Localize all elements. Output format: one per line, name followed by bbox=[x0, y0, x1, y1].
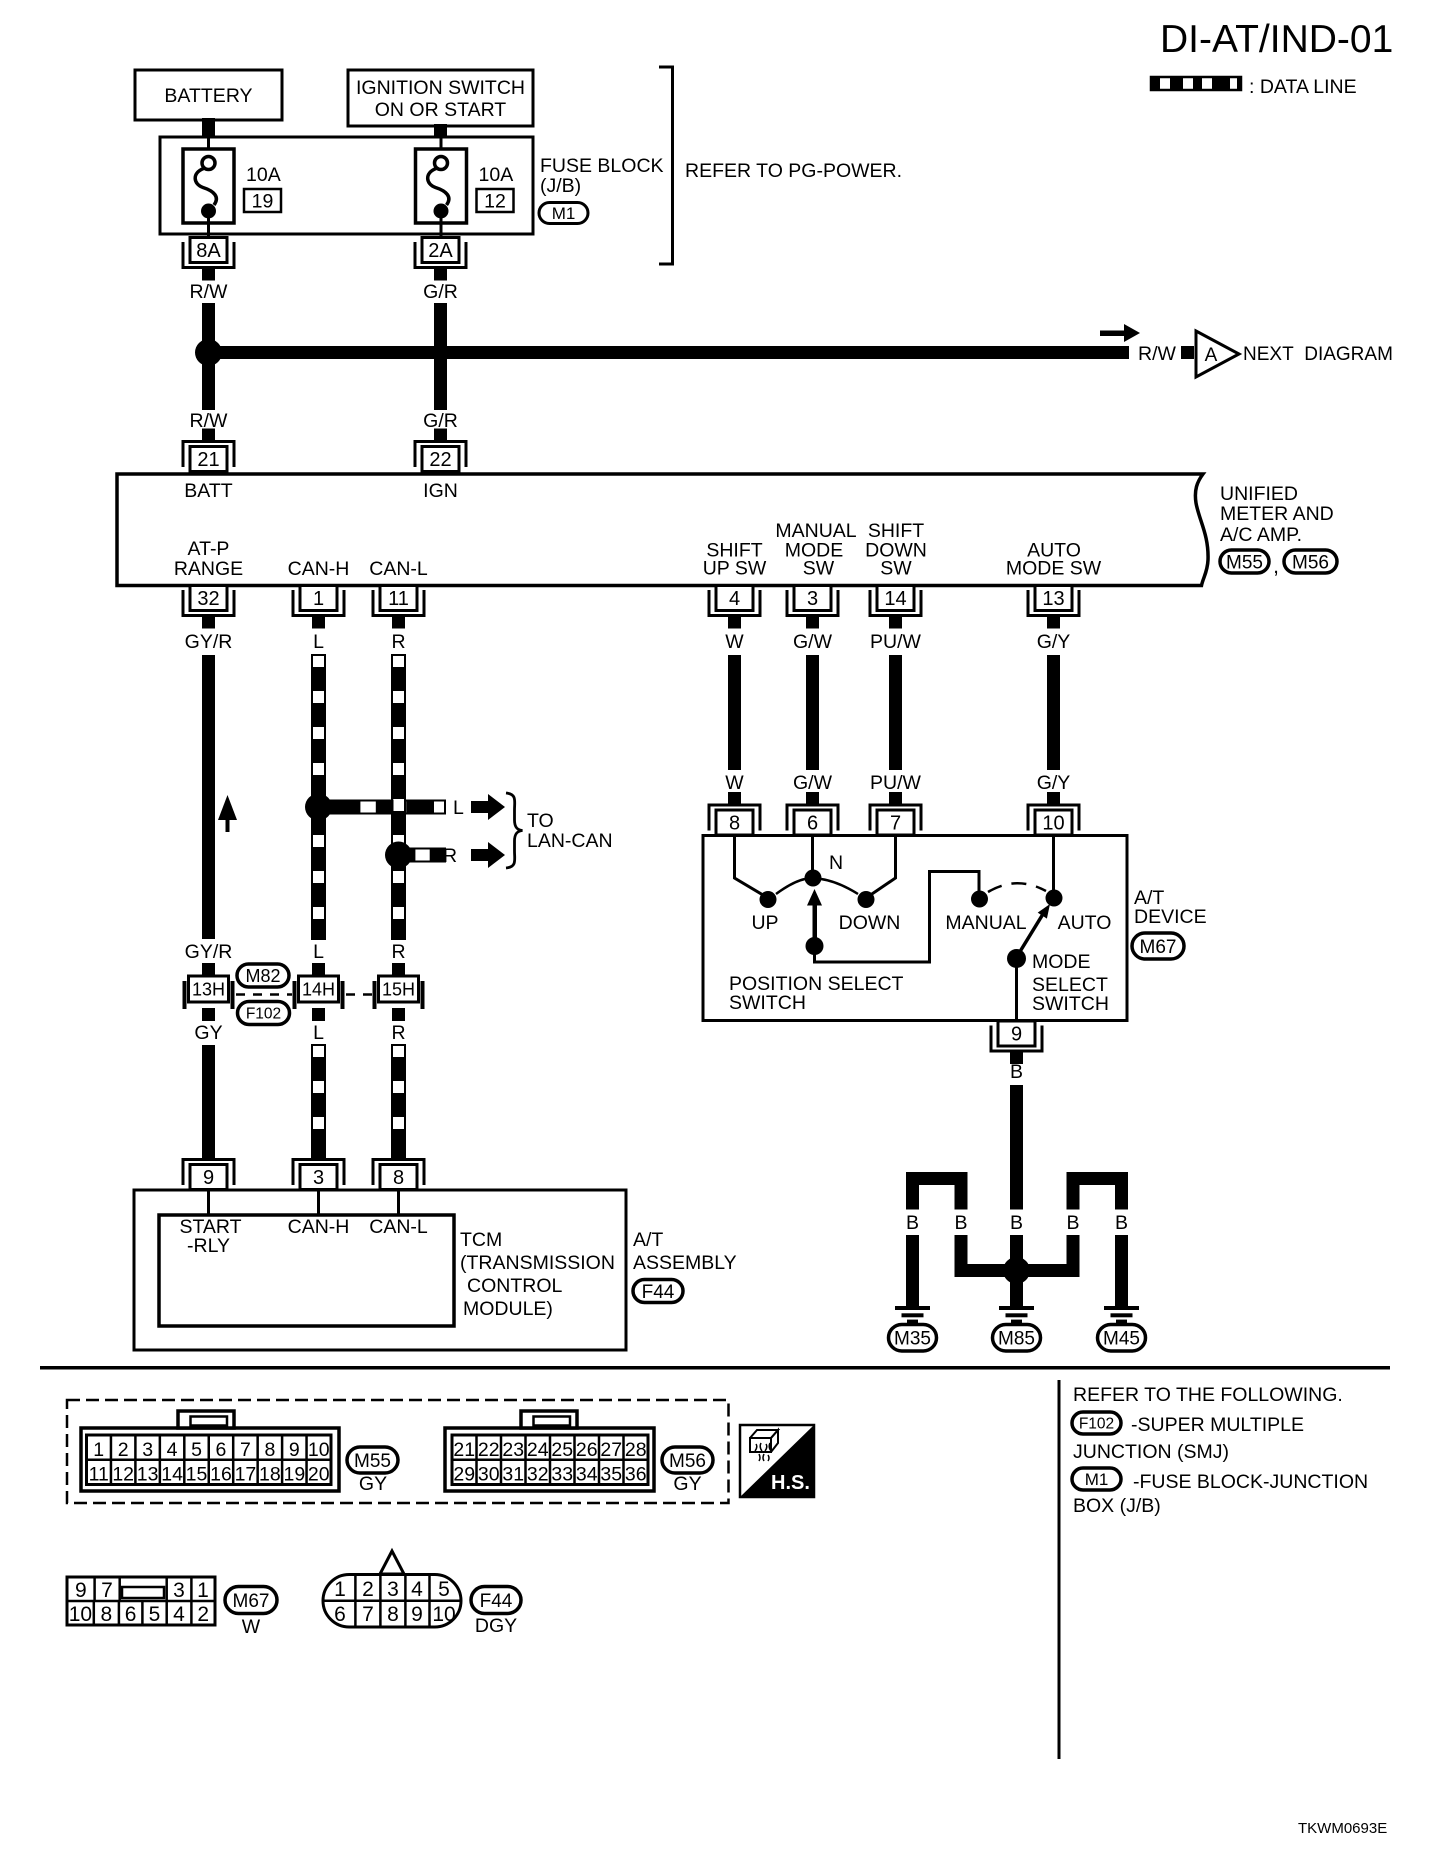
label R/W upper bbox=[190, 281, 229, 303]
svg-text:19: 19 bbox=[283, 1464, 305, 1486]
label R row1 bbox=[391, 631, 405, 653]
svg-text:7: 7 bbox=[362, 1603, 374, 1626]
label PU/W row2 bbox=[870, 772, 922, 794]
wire ignition to fuse block bbox=[434, 124, 447, 138]
svg-text:7: 7 bbox=[240, 1439, 251, 1461]
svg-text:14: 14 bbox=[161, 1464, 183, 1486]
svg-text:DOWN: DOWN bbox=[839, 912, 901, 934]
svg-text:CAN-L: CAN-L bbox=[369, 1216, 428, 1238]
connector 13H bbox=[183, 976, 235, 1009]
svg-text:CAN-H: CAN-H bbox=[288, 1216, 350, 1238]
wire B g4 lower bbox=[1067, 1235, 1080, 1277]
svg-text:R/W: R/W bbox=[1138, 343, 1177, 365]
title DI-AT/IND-01 bbox=[1160, 18, 1393, 61]
svg-text:AT-P: AT-P bbox=[188, 538, 230, 560]
svg-text:31: 31 bbox=[502, 1464, 524, 1486]
svg-text:-FUSE BLOCK-JUNCTION: -FUSE BLOCK-JUNCTION bbox=[1133, 1471, 1368, 1493]
svg-text:TO: TO bbox=[527, 810, 554, 832]
left ground loop top bbox=[906, 1172, 968, 1210]
svg-text:G/Y: G/Y bbox=[1037, 772, 1071, 794]
svg-text:(J/B): (J/B) bbox=[540, 175, 581, 197]
svg-text:2: 2 bbox=[362, 1578, 374, 1601]
svg-text:14H: 14H bbox=[302, 980, 335, 1000]
svg-text:NEXT DIAGRAM: NEXT DIAGRAM bbox=[1243, 344, 1393, 365]
label MODE SELECT SWITCH bbox=[1032, 951, 1109, 1015]
stub GY below 13H bbox=[202, 1008, 215, 1021]
svg-text:6: 6 bbox=[125, 1603, 137, 1626]
connector 2A bbox=[415, 238, 466, 281]
svg-text:M67: M67 bbox=[233, 1591, 270, 1612]
svg-text:SWITCH: SWITCH bbox=[1032, 993, 1109, 1015]
svg-text:19: 19 bbox=[252, 191, 274, 213]
label PU/W row1 bbox=[870, 631, 922, 653]
connector 8A bbox=[183, 238, 234, 281]
svg-text:MANUAL: MANUAL bbox=[945, 912, 1026, 934]
position common dot bbox=[806, 937, 824, 955]
contact UP dot bbox=[760, 891, 777, 908]
svg-text:8: 8 bbox=[729, 813, 740, 835]
label B g3 bbox=[1010, 1212, 1023, 1234]
svg-text:4: 4 bbox=[167, 1439, 178, 1461]
label A/T DEVICE bbox=[1134, 887, 1207, 928]
label SHIFT DOWN SW bbox=[865, 520, 927, 580]
svg-text:M1: M1 bbox=[1085, 1470, 1109, 1489]
svg-text:8A: 8A bbox=[196, 240, 221, 262]
svg-text:5: 5 bbox=[191, 1439, 202, 1461]
svg-text:A/T: A/T bbox=[633, 1229, 663, 1251]
svg-text:B: B bbox=[906, 1212, 919, 1234]
svg-text:5: 5 bbox=[438, 1578, 450, 1601]
label G/Y row1 bbox=[1037, 631, 1071, 653]
svg-text:PU/W: PU/W bbox=[870, 772, 922, 794]
lead 8 into TCM bbox=[397, 1190, 400, 1216]
wire B g5 lower bbox=[1115, 1235, 1128, 1306]
fuse 12 10A bbox=[416, 138, 514, 237]
svg-text:23: 23 bbox=[502, 1439, 524, 1461]
svg-text:6: 6 bbox=[807, 813, 818, 835]
contact MANUAL dot bbox=[971, 891, 988, 908]
ground ref M35 oval bbox=[889, 1324, 937, 1351]
label TO LAN-CAN bbox=[527, 810, 613, 852]
svg-text:G/W: G/W bbox=[793, 631, 833, 653]
svg-text:F44: F44 bbox=[642, 1282, 675, 1303]
label CAN-H TCM bbox=[288, 1216, 350, 1238]
label B g5 bbox=[1115, 1212, 1128, 1234]
svg-text:20: 20 bbox=[308, 1464, 330, 1486]
wire G/R crossing bus bbox=[434, 303, 447, 410]
stub R above 15H bbox=[392, 963, 405, 976]
connector face M56 bbox=[445, 1411, 654, 1491]
label B g4 bbox=[1066, 1212, 1079, 1234]
svg-text:M55: M55 bbox=[1226, 552, 1263, 573]
svg-text:CAN-H: CAN-H bbox=[288, 558, 350, 580]
svg-text:10A: 10A bbox=[479, 164, 514, 186]
dashed link 14H-15H bbox=[346, 993, 372, 996]
svg-text:SW: SW bbox=[880, 558, 912, 580]
svg-text:21: 21 bbox=[453, 1439, 475, 1461]
contact DOWN dot bbox=[858, 891, 875, 908]
wire mode dot to pin9 bbox=[1015, 963, 1018, 1020]
svg-text:21: 21 bbox=[197, 449, 219, 471]
label B g1 bbox=[906, 1212, 919, 1234]
svg-text:3: 3 bbox=[387, 1578, 399, 1601]
svg-text:13: 13 bbox=[1042, 588, 1064, 610]
svg-text:9: 9 bbox=[289, 1439, 300, 1461]
svg-text:GY: GY bbox=[194, 1022, 222, 1044]
svg-text:7: 7 bbox=[890, 813, 901, 835]
junction dot CAN-H bbox=[305, 794, 332, 821]
svg-text:M85: M85 bbox=[998, 1329, 1035, 1350]
label L branch bbox=[453, 797, 464, 819]
connector 11 bbox=[373, 586, 424, 629]
branch CAN-H data horizontal bbox=[319, 801, 446, 814]
connector 1 bbox=[293, 586, 344, 629]
label W row1 bbox=[725, 631, 744, 653]
connector ref M82 oval bbox=[237, 964, 289, 987]
data line legend bbox=[1151, 76, 1357, 98]
connector ref M55 oval bbox=[1220, 550, 1269, 573]
fuse 19 10A bbox=[183, 138, 281, 237]
svg-text:29: 29 bbox=[453, 1464, 475, 1486]
svg-text:TCM: TCM bbox=[460, 1229, 502, 1251]
connector 4 bbox=[709, 586, 760, 629]
label R row3 bbox=[391, 1022, 405, 1044]
svg-text:M56: M56 bbox=[669, 1451, 706, 1472]
svg-text:36: 36 bbox=[625, 1464, 647, 1486]
notes divider line bbox=[1058, 1380, 1061, 1759]
ref M1 oval note bbox=[1072, 1468, 1121, 1490]
wiper arm arrow bbox=[807, 889, 822, 946]
svg-text:L: L bbox=[313, 941, 324, 963]
svg-text:13: 13 bbox=[137, 1464, 159, 1486]
svg-text:R: R bbox=[443, 845, 457, 867]
svg-text:34: 34 bbox=[576, 1464, 598, 1486]
connector 10 device bbox=[1028, 792, 1079, 835]
ground bottom left link bbox=[955, 1264, 1017, 1277]
svg-text:1: 1 bbox=[313, 588, 324, 610]
svg-text:,: , bbox=[1273, 555, 1279, 578]
label DGY F44 bbox=[475, 1615, 517, 1637]
arrow to LAN-CAN upper bbox=[471, 794, 505, 820]
connector 13 bbox=[1028, 586, 1079, 629]
label DOWN bbox=[839, 912, 901, 934]
svg-text:MODULE): MODULE) bbox=[463, 1298, 553, 1320]
svg-text:N: N bbox=[829, 852, 843, 874]
label AUTO MODE SW bbox=[1006, 540, 1102, 580]
svg-text:8: 8 bbox=[264, 1439, 275, 1461]
svg-text:BATTERY: BATTERY bbox=[164, 85, 252, 107]
label N bbox=[829, 852, 843, 874]
mode select dot bbox=[1007, 949, 1026, 968]
label SHIFT UP SW bbox=[703, 540, 767, 580]
connector 32 bbox=[183, 586, 234, 629]
ref M56 oval bottom bbox=[662, 1447, 713, 1473]
svg-text:1: 1 bbox=[93, 1439, 104, 1461]
svg-text:30: 30 bbox=[478, 1464, 500, 1486]
svg-text:MODE SW: MODE SW bbox=[1006, 558, 1102, 580]
label B g2 bbox=[954, 1212, 967, 1234]
svg-text:W: W bbox=[242, 1616, 261, 1638]
label IGN bbox=[423, 480, 458, 502]
svg-text:12: 12 bbox=[484, 191, 506, 213]
label NEXT DIAGRAM bbox=[1243, 344, 1393, 365]
connector 14 bbox=[870, 586, 921, 629]
dashed harness box bbox=[67, 1400, 729, 1503]
svg-text:G/W: G/W bbox=[793, 772, 833, 794]
svg-text:IGN: IGN bbox=[423, 480, 458, 502]
direction arrow on GY/R bbox=[218, 795, 237, 832]
ground ref M85 oval bbox=[993, 1324, 1041, 1351]
svg-text:32: 32 bbox=[197, 588, 219, 610]
dashed link 13H-14H bbox=[236, 993, 292, 996]
svg-text:M1: M1 bbox=[552, 204, 576, 223]
svg-text:PU/W: PU/W bbox=[870, 631, 922, 653]
A/T assembly outer box bbox=[134, 1190, 626, 1350]
svg-text:5: 5 bbox=[149, 1603, 161, 1626]
connector 3 meter bbox=[787, 586, 838, 629]
label G/R upper bbox=[423, 281, 458, 303]
connector 22 bbox=[415, 429, 466, 472]
wire G/Y upper bbox=[1047, 655, 1060, 770]
svg-text:F102: F102 bbox=[1079, 1416, 1114, 1433]
svg-text:4: 4 bbox=[411, 1578, 423, 1601]
svg-text:10: 10 bbox=[69, 1603, 92, 1626]
svg-text:BOX (J/B): BOX (J/B) bbox=[1073, 1495, 1161, 1517]
svg-text:REFER TO PG-POWER.: REFER TO PG-POWER. bbox=[685, 160, 902, 182]
svg-text:14: 14 bbox=[884, 588, 906, 610]
svg-text:35: 35 bbox=[600, 1464, 622, 1486]
label A/T ASSEMBLY bbox=[633, 1229, 737, 1274]
connector 9 device bbox=[991, 1021, 1042, 1064]
label AT-P RANGE bbox=[174, 538, 243, 580]
mode select lever bbox=[1019, 904, 1051, 954]
wire CAN-H data upper bbox=[312, 655, 325, 939]
svg-text:13H: 13H bbox=[192, 980, 225, 1000]
label TCM bbox=[460, 1229, 615, 1320]
svg-text:27: 27 bbox=[600, 1439, 622, 1461]
svg-text:AUTO: AUTO bbox=[1058, 912, 1112, 934]
svg-text:M67: M67 bbox=[1140, 937, 1177, 958]
wire R/W to bus bbox=[202, 303, 215, 352]
svg-text:GY: GY bbox=[673, 1473, 701, 1495]
connector 14H bbox=[293, 976, 345, 1009]
label B below device bbox=[1010, 1061, 1023, 1083]
A/T device box bbox=[703, 836, 1127, 1021]
svg-text:SWITCH: SWITCH bbox=[729, 992, 806, 1014]
label GY/R row2 bbox=[185, 941, 233, 963]
wire CAN-H data lower bbox=[312, 1045, 325, 1160]
svg-text:8: 8 bbox=[387, 1603, 399, 1626]
svg-text:18: 18 bbox=[259, 1464, 281, 1486]
wire B center upper bbox=[1010, 1085, 1023, 1210]
wire B center lower bbox=[1010, 1235, 1023, 1271]
unified meter and A/C amp box bbox=[117, 474, 1208, 586]
label R row2 bbox=[391, 941, 405, 963]
svg-text:GY/R: GY/R bbox=[185, 941, 233, 963]
ref M67 oval bottom bbox=[225, 1587, 277, 1614]
svg-text:W: W bbox=[725, 631, 744, 653]
connector 8 TCM bbox=[373, 1147, 424, 1190]
label G/W row2 bbox=[793, 772, 833, 794]
svg-text:LAN-CAN: LAN-CAN bbox=[527, 830, 613, 852]
brace to LAN-CAN bbox=[506, 793, 523, 868]
bracket fuse block section bbox=[659, 67, 673, 264]
connector 15H bbox=[373, 976, 425, 1009]
svg-text:11: 11 bbox=[388, 588, 409, 610]
note refer to the following bbox=[1073, 1384, 1343, 1406]
svg-text:M55: M55 bbox=[354, 1451, 391, 1472]
svg-text:L: L bbox=[453, 797, 464, 819]
svg-text:7: 7 bbox=[101, 1579, 113, 1602]
svg-text:8: 8 bbox=[101, 1603, 113, 1626]
wire CAN-L data upper bbox=[392, 655, 405, 939]
arrow above bus bbox=[1100, 324, 1140, 342]
label GY row3 bbox=[194, 1022, 222, 1044]
svg-text:28: 28 bbox=[625, 1439, 647, 1461]
lead 3 into TCM bbox=[317, 1190, 320, 1216]
svg-text:26: 26 bbox=[576, 1439, 598, 1461]
wire B g1 lower bbox=[906, 1235, 919, 1306]
label R/W lower bbox=[190, 410, 229, 432]
label GY M56 bbox=[673, 1473, 701, 1495]
svg-text:GY: GY bbox=[359, 1473, 387, 1495]
label MANUAL bbox=[945, 912, 1026, 934]
svg-text:: DATA LINE: : DATA LINE bbox=[1249, 76, 1357, 98]
connector face F44 bbox=[323, 1551, 461, 1627]
connector ref F102 oval mid bbox=[238, 1002, 290, 1025]
label fuse block J/B bbox=[540, 155, 664, 197]
svg-text:2: 2 bbox=[197, 1603, 209, 1626]
svg-text:9: 9 bbox=[75, 1579, 87, 1602]
connector 8 device bbox=[709, 792, 760, 835]
svg-text:M82: M82 bbox=[245, 966, 280, 986]
mode dashed arc bbox=[988, 883, 1046, 892]
svg-text:IGNITION SWITCH: IGNITION SWITCH bbox=[356, 77, 525, 99]
note refer to pg-power bbox=[685, 160, 902, 182]
label L row2 bbox=[313, 941, 324, 963]
svg-text:B: B bbox=[1010, 1061, 1023, 1083]
label GY/R row1 bbox=[185, 631, 233, 653]
lead pin10 to AUTO bbox=[1052, 837, 1055, 890]
svg-text:METER AND: METER AND bbox=[1220, 503, 1334, 525]
svg-text:DEVICE: DEVICE bbox=[1134, 906, 1207, 928]
svg-text:ON OR START: ON OR START bbox=[375, 99, 507, 121]
label L row1 bbox=[313, 631, 324, 653]
svg-text:SW: SW bbox=[803, 558, 835, 580]
svg-text:F102: F102 bbox=[246, 1006, 281, 1023]
junction dot CAN-L bbox=[385, 842, 412, 869]
label CAN-L TCM bbox=[369, 1216, 428, 1238]
connector face M67 bbox=[67, 1577, 215, 1626]
label START -RLY bbox=[179, 1216, 241, 1257]
ground bottom right link bbox=[1010, 1264, 1080, 1277]
connector face M55 bbox=[81, 1411, 339, 1491]
svg-text:2A: 2A bbox=[428, 240, 453, 262]
label R/W at bus end bbox=[1138, 343, 1177, 365]
branch CAN-L data horizontal bbox=[399, 849, 446, 862]
svg-text:H.S.: H.S. bbox=[771, 1472, 810, 1494]
svg-text:B: B bbox=[1010, 1212, 1023, 1234]
label G/W row1 bbox=[793, 631, 833, 653]
svg-text:1: 1 bbox=[197, 1579, 209, 1602]
wire B g2 lower bbox=[955, 1235, 968, 1277]
svg-text:TKWM0693E: TKWM0693E bbox=[1298, 1820, 1387, 1837]
svg-text:G/R: G/R bbox=[423, 281, 458, 303]
label GY M55 bbox=[359, 1473, 387, 1495]
svg-text:UP: UP bbox=[751, 912, 778, 934]
svg-text:8: 8 bbox=[393, 1167, 404, 1189]
wire GY lower bbox=[202, 1045, 215, 1160]
TCM inner box bbox=[159, 1215, 454, 1326]
svg-text:2: 2 bbox=[118, 1439, 129, 1461]
svg-text:15H: 15H bbox=[382, 980, 415, 1000]
ignition switch box bbox=[348, 70, 533, 126]
label AUTO bbox=[1058, 912, 1112, 934]
svg-text:R/W: R/W bbox=[190, 281, 229, 303]
svg-text:10: 10 bbox=[1042, 813, 1064, 835]
stub R below 15H bbox=[392, 1008, 405, 1021]
svg-text:12: 12 bbox=[112, 1464, 134, 1486]
comma between ovals bbox=[1273, 555, 1279, 578]
svg-text:A: A bbox=[1205, 345, 1218, 366]
ref F102 oval note bbox=[1072, 1412, 1121, 1434]
connector ref F44 oval bbox=[633, 1280, 683, 1303]
ref M55 oval bottom bbox=[347, 1447, 398, 1473]
label UNIFIED METER AND A/C AMP bbox=[1220, 483, 1334, 546]
label CAN-H bbox=[288, 558, 350, 580]
svg-text:W: W bbox=[725, 772, 744, 794]
svg-text:-SUPER MULTIPLE: -SUPER MULTIPLE bbox=[1131, 1414, 1304, 1436]
svg-text:CAN-L: CAN-L bbox=[369, 558, 428, 580]
svg-text:B: B bbox=[954, 1212, 967, 1234]
connector 7 device bbox=[870, 792, 921, 835]
svg-text:3: 3 bbox=[313, 1167, 324, 1189]
svg-text:A/C AMP.: A/C AMP. bbox=[1220, 524, 1302, 546]
label G/Y row2 bbox=[1037, 772, 1071, 794]
svg-text:(TRANSMISSION: (TRANSMISSION bbox=[460, 1252, 615, 1274]
bus wire R/W horizontal bbox=[208, 346, 1129, 359]
hyper smooth H.S. marker bbox=[740, 1425, 814, 1497]
lead pin6 to N bbox=[811, 837, 814, 872]
svg-text:9: 9 bbox=[411, 1603, 423, 1626]
svg-text:10: 10 bbox=[432, 1603, 455, 1626]
svg-text:JUNCTION (SMJ): JUNCTION (SMJ) bbox=[1073, 1441, 1229, 1463]
wiper arc left bbox=[776, 879, 805, 894]
svg-text:25: 25 bbox=[551, 1439, 573, 1461]
arrow to LAN-CAN lower bbox=[471, 842, 505, 868]
svg-text:DI-AT/IND-01: DI-AT/IND-01 bbox=[1160, 18, 1393, 61]
wire to center ground bbox=[1010, 1271, 1023, 1306]
label G/R lower bbox=[423, 410, 458, 432]
svg-text:3: 3 bbox=[173, 1579, 185, 1602]
svg-text:16: 16 bbox=[210, 1464, 232, 1486]
wire battery to fuse block bbox=[202, 118, 215, 138]
connector ref M1 oval bbox=[539, 203, 588, 224]
stub L above 14H bbox=[312, 963, 325, 976]
connector 6 device bbox=[787, 792, 838, 835]
label CAN-L bbox=[369, 558, 428, 580]
label R branch bbox=[443, 845, 457, 867]
battery box bbox=[135, 70, 282, 120]
label POSITION SELECT SWITCH bbox=[729, 973, 904, 1014]
svg-text:33: 33 bbox=[551, 1464, 573, 1486]
svg-text:BATT: BATT bbox=[184, 480, 232, 502]
svg-text:9: 9 bbox=[203, 1167, 214, 1189]
wire W upper bbox=[728, 655, 741, 770]
svg-text:UNIFIED: UNIFIED bbox=[1220, 483, 1298, 505]
note fuse block junction box bbox=[1073, 1471, 1368, 1517]
wire PU/W upper bbox=[889, 655, 902, 770]
